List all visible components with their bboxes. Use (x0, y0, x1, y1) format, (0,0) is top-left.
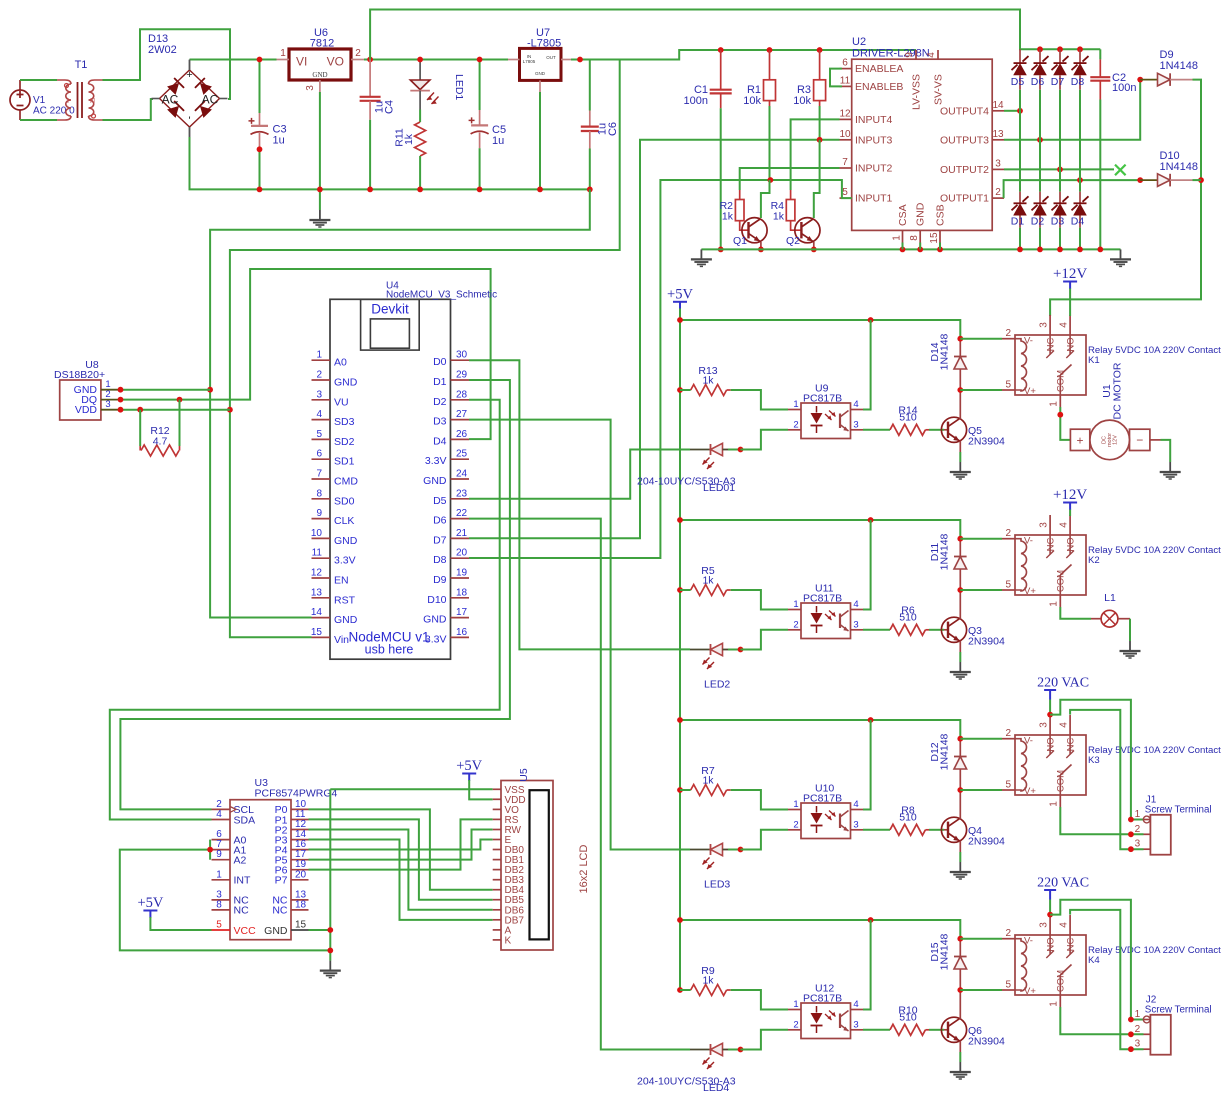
svg-text:CSB: CSB (935, 204, 947, 226)
ground under Q4 (950, 862, 971, 879)
svg-text:100n: 100n (684, 95, 708, 107)
svg-text:4: 4 (853, 999, 858, 1010)
+5V supply at LCD VDD (456, 758, 482, 781)
U5 pin VDD (493, 795, 526, 806)
transistor Q1 (733, 218, 767, 247)
U4 pin 22 D6 (433, 508, 469, 527)
svg-text:Relay 5VDC 10A 220V Contact: Relay 5VDC 10A 220V Contact (1088, 345, 1221, 356)
svg-text:3: 3 (853, 1019, 858, 1030)
U4 pin 9 CLK (312, 508, 355, 527)
svg-text:-L7805: -L7805 (527, 37, 561, 49)
svg-text:1: 1 (1049, 1001, 1060, 1007)
wire OUTPUT4 (1004, 108, 1023, 114)
svg-text:DRIVER-L298N: DRIVER-L298N (852, 48, 930, 60)
label relay K1 (1088, 345, 1221, 366)
U5 pin RW (493, 825, 522, 836)
svg-text:NC: NC (1065, 938, 1076, 952)
svg-text:3: 3 (105, 399, 110, 410)
wire +12V to K2 NO pin 4 (1069, 510, 1071, 517)
220 VAC supply at K3 (1037, 676, 1089, 700)
svg-text:+12V: +12V (1053, 487, 1087, 503)
wire 220VAC to J2 pin 1 (1050, 900, 1143, 1023)
svg-text:T1: T1 (75, 59, 88, 71)
svg-text:PC817B: PC817B (803, 993, 842, 1005)
svg-text:V-: V- (1024, 336, 1033, 347)
wire +5V net to NodeMCU Vin pin 15 (227, 60, 620, 638)
svg-text:GND: GND (264, 925, 288, 937)
svg-text:1: 1 (892, 235, 903, 241)
NodeMCU U4 box (330, 281, 497, 660)
svg-text:20: 20 (295, 869, 307, 880)
capacitor C4 1u (360, 60, 396, 193)
svg-text:25: 25 (456, 449, 468, 460)
svg-text:3: 3 (316, 389, 322, 400)
svg-text:8: 8 (316, 488, 322, 499)
svg-text:GND: GND (423, 475, 447, 487)
U3 pin 16 P4 (275, 839, 309, 856)
U2 pin 3 OUTPUT2 (940, 158, 1004, 176)
svg-text:C4: C4 (384, 100, 396, 114)
wire K4 NC pin 4 to J2 pin 3 (1070, 910, 1143, 1052)
U4 pin 28 D2 (433, 389, 469, 408)
svg-text:Relay 5VDC 10A 220V Contact: Relay 5VDC 10A 220V Contact (1088, 745, 1221, 756)
resistor R10 510 (863, 1004, 944, 1035)
svg-text:21: 21 (456, 528, 468, 539)
diode D2 (1031, 140, 1049, 253)
svg-text:1: 1 (1049, 401, 1060, 407)
ground under Q3 (950, 662, 971, 679)
svg-text:100n: 100n (1112, 82, 1136, 94)
U3 pin 17 P5 (275, 849, 309, 866)
U4 pin 27 D3 (433, 409, 469, 428)
wire U9 pin 4 to +5V (863, 320, 871, 410)
svg-text:4.7: 4.7 (153, 436, 168, 448)
U4 pin 17 GND (423, 607, 469, 626)
svg-text:10: 10 (839, 129, 851, 140)
svg-text:510: 510 (899, 611, 917, 623)
svg-text:1: 1 (793, 599, 798, 610)
svg-text:SD1: SD1 (334, 456, 355, 468)
svg-text:SD3: SD3 (334, 416, 355, 428)
U3 pin 3 NC (212, 889, 250, 906)
wire U7 GND to rail (537, 92, 543, 192)
U4 pin 21 D7 (433, 528, 469, 547)
svg-text:1k: 1k (702, 574, 714, 586)
svg-text:NodeMCU_V3_Schmetic: NodeMCU_V3_Schmetic (386, 290, 497, 301)
svg-text:2N3904: 2N3904 (968, 436, 1005, 448)
svg-text:2: 2 (1005, 928, 1011, 939)
svg-text:2N3904: 2N3904 (968, 636, 1005, 648)
svg-text:1: 1 (1049, 801, 1060, 807)
svg-text:SDA: SDA (234, 814, 256, 826)
U3 pin 18 NC (272, 899, 308, 916)
svg-text:OUTPUT3: OUTPUT3 (940, 134, 989, 146)
relay K4 (1002, 915, 1086, 1007)
svg-text:15: 15 (295, 920, 307, 931)
svg-text:A2: A2 (234, 855, 247, 867)
wire +5V to LCD VDD (469, 780, 493, 799)
svg-text:23: 23 (456, 488, 468, 499)
svg-text:3: 3 (995, 158, 1001, 169)
relay K3 (1002, 715, 1086, 807)
transistor Q6 2N3904 (941, 990, 1005, 1052)
svg-text:30: 30 (456, 350, 468, 361)
wire U3 P5 to LCD RW (309, 829, 493, 859)
wire D14 to relay K1 coil (960, 339, 1002, 390)
svg-text:D8: D8 (1071, 76, 1085, 88)
resistor R5 1k (677, 565, 731, 596)
U4 pin 5 SD2 (312, 429, 355, 448)
wire LED to U10 pin 2 (741, 830, 789, 850)
wire +12V top rail to diode bank (370, 10, 1100, 60)
svg-text:2: 2 (1135, 824, 1141, 835)
svg-text:18: 18 (456, 587, 468, 598)
svg-text:LED3: LED3 (704, 879, 730, 891)
U4 pin 16 3.3V (425, 627, 469, 646)
svg-text:3.3V: 3.3V (425, 455, 447, 467)
wire D3 to LED3 (469, 420, 690, 850)
U3 SCL clock arrow (230, 807, 236, 813)
U3 pin 4 SDA (212, 809, 256, 826)
U4 pin 10 GND (311, 528, 358, 547)
relay K1 (1002, 315, 1086, 407)
U2 pin 12 INPUT4 (839, 108, 892, 126)
svg-text:9: 9 (216, 849, 222, 860)
svg-text:NC: NC (1045, 538, 1056, 552)
wire U3 P6 to LCD RS (309, 819, 493, 869)
capacitor C6 1u (581, 60, 619, 193)
svg-text:24: 24 (456, 469, 468, 480)
svg-text:3: 3 (853, 819, 858, 830)
ground under motor (1160, 462, 1181, 479)
svg-text:NO: NO (1045, 937, 1056, 951)
svg-text:2: 2 (1135, 1024, 1141, 1035)
wire U11 pin 4 to +5V (863, 520, 871, 610)
label LED4 part number (637, 1076, 736, 1095)
svg-text:4: 4 (1059, 722, 1070, 728)
svg-text:5: 5 (1005, 380, 1011, 391)
svg-text:OUTPUT1: OUTPUT1 (940, 193, 989, 205)
wire LCD VSS to ground net (330, 788, 492, 790)
wire D11 to relay K2 coil (960, 539, 1002, 590)
svg-text:COM: COM (1056, 370, 1067, 392)
svg-text:K3: K3 (1088, 755, 1100, 766)
svg-text:V+: V+ (1024, 786, 1036, 797)
svg-text:INPUT1: INPUT1 (855, 193, 893, 205)
svg-text:3: 3 (1039, 522, 1050, 528)
wire LED to U11 pin 2 (741, 630, 789, 650)
svg-text:D9: D9 (433, 574, 447, 586)
svg-text:LV-VSS: LV-VSS (911, 74, 923, 110)
U5 pin DB6 (493, 905, 525, 916)
wire OUTPUT2 no-connect (1004, 165, 1126, 176)
svg-text:2: 2 (793, 419, 798, 430)
+12V supply at K1 (1053, 266, 1087, 289)
svg-text:L1: L1 (1104, 592, 1116, 604)
svg-text:3: 3 (305, 85, 316, 91)
svg-text:GND: GND (312, 71, 327, 79)
diode D4 (1071, 180, 1089, 252)
svg-text:K: K (505, 935, 512, 946)
svg-text:6: 6 (316, 449, 322, 460)
U3 pin 7 A1 (212, 839, 247, 856)
LED indicator LED01 (690, 443, 743, 469)
svg-text:1: 1 (316, 350, 322, 361)
svg-text:GND: GND (334, 614, 358, 626)
U2 pin 10 INPUT3 (839, 129, 892, 147)
optocoupler U12 PC817B (788, 983, 863, 1039)
svg-text:PC817B: PC817B (803, 593, 842, 605)
svg-text:usb here: usb here (365, 643, 414, 657)
sensor U8 DS18B20+ (54, 359, 119, 420)
lamp L1 (1091, 592, 1130, 627)
svg-text:2: 2 (995, 187, 1001, 198)
svg-text:1: 1 (280, 48, 286, 59)
svg-text:Relay 5VDC 10A 220V Contact: Relay 5VDC 10A 220V Contact (1088, 945, 1221, 956)
svg-text:11: 11 (840, 75, 851, 86)
resistor R13 1k (677, 365, 731, 396)
svg-text:LED1: LED1 (453, 74, 465, 100)
svg-text:3.3V: 3.3V (425, 633, 447, 645)
svg-text:NC: NC (272, 905, 288, 917)
svg-text:1N4148: 1N4148 (939, 333, 951, 370)
svg-text:U5: U5 (518, 768, 530, 782)
svg-text:1k: 1k (403, 133, 415, 145)
wire OUTPUT1 to D10 anode (1004, 177, 1144, 198)
svg-text:V-: V- (1024, 736, 1033, 747)
resistor R8 510 (863, 804, 944, 835)
wire lamp to ground (1129, 619, 1131, 641)
U5 pin A (493, 925, 512, 936)
svg-text:15: 15 (929, 232, 940, 244)
resistor R4 1k (771, 190, 802, 230)
svg-text:GND: GND (334, 535, 358, 547)
diode D11 1N4148 (929, 533, 967, 592)
svg-text:D8: D8 (433, 554, 447, 566)
svg-text:OUTPUT4: OUTPUT4 (940, 105, 989, 117)
U2 ground rail (701, 247, 1120, 253)
svg-text:CLK: CLK (334, 515, 354, 527)
svg-text:3: 3 (1135, 839, 1141, 850)
svg-text:V+: V+ (1024, 986, 1036, 997)
svg-text:1: 1 (793, 999, 798, 1010)
svg-text:4: 4 (853, 599, 858, 610)
label relay K2 (1088, 545, 1221, 566)
svg-text:NC: NC (1045, 338, 1056, 352)
wire bridge + output to U6 VI (190, 60, 277, 71)
wire U3 P0 to LCD DB4 (309, 809, 493, 889)
svg-text:NO: NO (1065, 337, 1076, 351)
U4 pin 15 Vin (311, 627, 349, 646)
svg-text:+12V: +12V (1053, 266, 1087, 282)
svg-text:AC: AC (202, 93, 219, 107)
LED1 with emission arrows (410, 57, 465, 110)
resistor R14 510 (863, 404, 944, 435)
svg-text:D3: D3 (1051, 216, 1065, 228)
diode D9 1N4148 (1140, 49, 1198, 86)
svg-text:D5: D5 (1011, 76, 1025, 88)
svg-text:2: 2 (793, 619, 798, 630)
svg-text:1: 1 (793, 399, 798, 410)
ground at left of U2 rail (691, 249, 712, 266)
svg-text:16: 16 (456, 627, 468, 638)
220 VAC supply at K4 (1037, 876, 1089, 900)
wire D0 to LED2 (469, 360, 690, 649)
U3 pin 13 NC (272, 889, 308, 906)
svg-text:+5V: +5V (667, 286, 693, 302)
svg-text:Relay 5VDC 10A 220V Contact: Relay 5VDC 10A 220V Contact (1088, 545, 1221, 556)
svg-text:4: 4 (316, 409, 322, 420)
svg-text:PC817B: PC817B (803, 793, 842, 805)
resistor R12 4.7 (140, 400, 179, 456)
+12V supply at K2 (1053, 487, 1087, 510)
wire Q1 emitter to ground rail (758, 242, 764, 252)
svg-text:7812: 7812 (310, 37, 334, 49)
U2 pin 2 OUTPUT1 (940, 187, 1004, 205)
wire D9 cathode to K1 NC (1050, 80, 1204, 316)
wire OUTPUT3 to D9 anode (1004, 77, 1143, 143)
wire Q6 emitter to ground (959, 1052, 961, 1062)
U4 pin 23 D5 (433, 488, 469, 507)
svg-text:OUT: OUT (546, 55, 556, 60)
U4 pin 12 EN (311, 568, 349, 587)
svg-text:14: 14 (311, 607, 323, 618)
svg-text:V1: V1 (33, 95, 46, 106)
LED indicator LED2 (690, 643, 743, 669)
wire D12 to relay K3 coil (960, 739, 1002, 790)
U2 pin 5 INPUT1 (840, 187, 893, 205)
capacitor C5 1u (469, 57, 506, 193)
svg-text:K2: K2 (1088, 555, 1100, 566)
svg-text:2N3904: 2N3904 (968, 1036, 1005, 1048)
svg-text:RST: RST (334, 594, 356, 606)
svg-text:V+: V+ (1024, 586, 1036, 597)
svg-text:220 VAC: 220 VAC (1037, 676, 1089, 691)
svg-text:OUTPUT2: OUTPUT2 (940, 164, 989, 176)
U4 pin 24 GND (423, 469, 469, 488)
U3 pin 5 VCC (212, 920, 257, 937)
svg-text:Vin: Vin (334, 634, 349, 646)
svg-text:5: 5 (216, 920, 222, 931)
wire channel 3 +5V top wire (677, 717, 960, 739)
+5V rail down the channels (679, 309, 681, 991)
svg-text:+: + (186, 69, 192, 81)
wire U3 A0 A1 A2 to ground (120, 840, 330, 951)
svg-text:VCC: VCC (234, 925, 257, 937)
wire 220VAC to J1 pin 1 (1050, 700, 1143, 823)
svg-text:2N3904: 2N3904 (968, 836, 1005, 848)
U4 pin 11 3.3V (312, 548, 356, 567)
wire +5V to U3 VCC (150, 917, 211, 930)
svg-text:26: 26 (456, 429, 468, 440)
svg-text:5: 5 (842, 187, 848, 198)
svg-text:1: 1 (1135, 809, 1141, 820)
label LED01 part number (637, 476, 736, 495)
svg-text:8: 8 (909, 235, 920, 241)
svg-text:D0: D0 (433, 356, 447, 368)
svg-text:I: I (67, 98, 69, 105)
wire INPUT4 to R4 (791, 119, 840, 190)
expander U3 PCF8574 box (230, 777, 338, 940)
diode D7 (1051, 49, 1069, 169)
svg-text:LED2: LED2 (704, 679, 730, 691)
ground under U3 (320, 961, 341, 978)
U4 pin 6 SD1 (312, 449, 355, 468)
resistor R9 1k (677, 965, 731, 996)
svg-text:+5V: +5V (456, 758, 482, 774)
wire channel 4 +5V top wire (677, 917, 960, 939)
U2 pin 15 CSB (929, 204, 947, 243)
transformer T1 (57, 59, 103, 120)
svg-text:D2: D2 (433, 396, 447, 408)
U2 pin 9 LV-VSS (904, 50, 923, 110)
svg-text:3: 3 (853, 419, 858, 430)
wire 220VAC to K3 NO pin 3 (1047, 700, 1053, 718)
svg-text:2: 2 (1005, 728, 1011, 739)
svg-text:+: + (1076, 433, 1083, 447)
wire Q5 emitter to ground (959, 452, 961, 462)
svg-text:13: 13 (311, 587, 323, 598)
wire K1 COM to motor (1057, 407, 1070, 440)
svg-text:29: 29 (456, 370, 468, 381)
diode D14 1N4148 (929, 333, 967, 392)
svg-text:1N4148: 1N4148 (939, 733, 951, 770)
regulator U7 -L7805 (508, 27, 571, 92)
U4 pin 19 D9 (433, 568, 469, 587)
U3 pin 15 GND (264, 920, 308, 937)
capacitor C3 1u (249, 57, 287, 193)
transistor Q1 collector wire from R1/INPUT1 node (761, 180, 770, 218)
svg-text:12V: 12V (1113, 435, 1119, 445)
svg-text:20: 20 (456, 548, 468, 559)
U3 pin 10 P0 (275, 799, 309, 816)
wire K4 COM to J2 pin 2 (1060, 1007, 1143, 1037)
U3 pin 6 A0 (212, 829, 247, 846)
svg-text:CSA: CSA (897, 204, 909, 226)
wire D6 to LED4 (469, 519, 690, 1050)
wire +12V to K1 NO pin 4 (1069, 289, 1071, 317)
svg-text:VI: VI (296, 55, 307, 69)
svg-text:SD2: SD2 (334, 436, 355, 448)
svg-text:1k: 1k (702, 974, 714, 986)
wire U10 pin 4 to +5V (863, 720, 871, 810)
U3 pin 8 NC (212, 899, 250, 916)
svg-text:6: 6 (842, 58, 848, 69)
ground under lamp (1120, 641, 1141, 658)
svg-text:Screw Terminal: Screw Terminal (1145, 1005, 1212, 1016)
svg-text:28: 28 (456, 389, 468, 400)
svg-text:GND: GND (535, 71, 546, 76)
optocoupler U10 PC817B (788, 783, 863, 839)
svg-text:COM: COM (1056, 770, 1067, 792)
svg-text:9: 9 (316, 508, 322, 519)
svg-text:GND: GND (915, 202, 927, 226)
svg-text:4: 4 (1059, 522, 1070, 528)
svg-text:LED4: LED4 (703, 1082, 729, 1094)
svg-text:2: 2 (316, 370, 322, 381)
svg-text:5: 5 (316, 429, 322, 440)
U3 pin 9 A2 (212, 849, 247, 866)
+5V supply at U3 VCC (137, 895, 163, 918)
wire GND net to NodeMCU GND pin 14 (207, 189, 590, 617)
U2 pin 8 GND (909, 202, 927, 242)
U2 pin 14 OUTPUT4 (940, 100, 1004, 118)
svg-text:1k: 1k (702, 374, 714, 386)
svg-text:2: 2 (355, 48, 361, 59)
svg-text:Q1: Q1 (733, 235, 747, 247)
transistor Q3 2N3904 (941, 590, 1005, 652)
diode D1 (1011, 111, 1029, 253)
